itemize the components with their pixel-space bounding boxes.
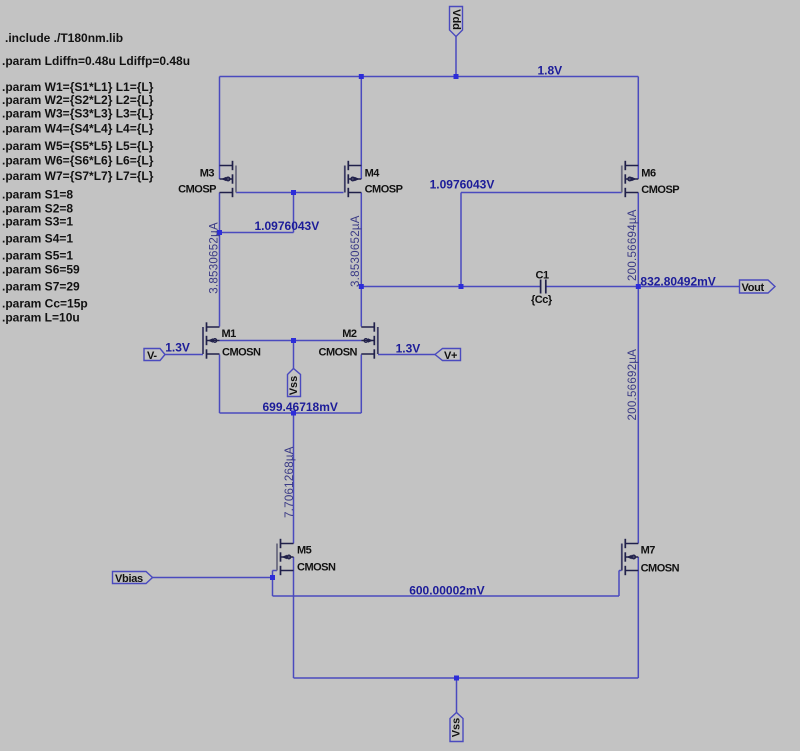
wire M7 bulk/source down bbox=[637, 557, 639, 678]
transistor M1 CMOSN bbox=[203, 322, 261, 358]
wire tail down to M5 bbox=[293, 413, 295, 544]
wire M3 drain to M1 drain bbox=[219, 193, 221, 327]
wire M6 drain to M7 drain bbox=[637, 193, 639, 544]
wire M7 gate jog bbox=[619, 570, 622, 572]
junction bottom rail/Vss bbox=[454, 676, 459, 681]
port V+ input bbox=[435, 349, 461, 363]
wire M6 source/bulk bbox=[637, 77, 639, 180]
junction M4 drain/output bbox=[359, 284, 364, 289]
svg-text:.param W2={S2*L2} L2={L}: .param W2={S2*L2} L2={L} bbox=[2, 93, 154, 107]
svg-text:.param W5={S5*L5} L5={L}: .param W5={S5*L5} L5={L} bbox=[2, 139, 154, 153]
svg-text:.param S3=1: .param S3=1 bbox=[2, 215, 73, 229]
svg-text:CMOSP: CMOSP bbox=[641, 184, 679, 196]
junction tail bbox=[291, 411, 296, 416]
svg-text:.param W6={S6*L6} L6={L}: .param W6={S6*L6} L6={L} bbox=[2, 154, 154, 168]
svg-text:V-: V- bbox=[147, 350, 157, 362]
wire M2 source down bbox=[360, 355, 362, 414]
svg-text:CMOSP: CMOSP bbox=[365, 184, 403, 196]
svg-text:600.00002mV: 600.00002mV bbox=[409, 584, 484, 598]
svg-text:200.56692µA: 200.56692µA bbox=[627, 349, 639, 421]
wire Vdd stem bbox=[455, 37, 457, 77]
wire M4 source/bulk bbox=[360, 77, 362, 180]
svg-text:C1: C1 bbox=[536, 270, 549, 282]
junction M3 diode bbox=[217, 230, 222, 235]
wire M5 gate jog horizontal bbox=[273, 570, 278, 572]
svg-text:1.0976043V: 1.0976043V bbox=[430, 177, 495, 191]
junction M6 gate/output bbox=[459, 284, 464, 289]
wire tail horizontal bbox=[220, 412, 362, 414]
wire C1 to Vout bbox=[546, 286, 740, 288]
wire Vss stem bottom bbox=[456, 678, 458, 713]
junction M4 source rail bbox=[359, 74, 364, 79]
transistor M3 CMOSP bbox=[178, 161, 236, 197]
svg-text:M1: M1 bbox=[222, 328, 237, 340]
transistor M4 CMOSP bbox=[345, 161, 403, 197]
svg-text:M3: M3 bbox=[200, 168, 215, 180]
svg-text:Vdd: Vdd bbox=[450, 9, 462, 30]
svg-text:200.56694µA: 200.56694µA bbox=[627, 209, 639, 281]
wire M3 source/bulk bbox=[219, 77, 221, 180]
wire M1-M2 bulk bus bbox=[220, 340, 362, 342]
wire V- to M1 gate bbox=[165, 354, 203, 356]
wire Vbias to M5 gate bbox=[153, 577, 273, 579]
junction gate bus bbox=[291, 190, 296, 195]
svg-text:.param W4={S4*L4} L4={L}: .param W4={S4*L4} L4={L} bbox=[2, 122, 154, 136]
transistor M2 CMOSN bbox=[319, 322, 378, 358]
svg-text:Vout: Vout bbox=[742, 282, 765, 294]
svg-text:M2: M2 bbox=[342, 328, 357, 340]
svg-text:CMOSN: CMOSN bbox=[319, 347, 358, 359]
port Vss middle flag bbox=[288, 369, 301, 397]
wire bottom Vss rail bbox=[294, 677, 639, 679]
junction Vbias/M5 gate bbox=[270, 575, 275, 580]
port Vout output bbox=[740, 280, 776, 294]
wire mirror bus horizontal bbox=[273, 595, 620, 597]
svg-text:.param S2=8: .param S2=8 bbox=[2, 202, 73, 216]
wire first-stage output to C1 bbox=[361, 286, 540, 288]
wire M5 gate jog vertical bbox=[272, 571, 274, 578]
svg-text:.param S5=1: .param S5=1 bbox=[2, 249, 73, 263]
spice directives text block bbox=[2, 31, 190, 325]
wire M6 gate horizontal bbox=[461, 192, 622, 194]
svg-text:CMOSN: CMOSN bbox=[641, 563, 680, 575]
transistor M6 CMOSP bbox=[622, 161, 680, 197]
svg-text:M5: M5 bbox=[297, 545, 312, 557]
svg-text:1.8V: 1.8V bbox=[538, 63, 563, 77]
svg-text:699.46718mV: 699.46718mV bbox=[263, 400, 338, 414]
svg-text:.param S6=59: .param S6=59 bbox=[2, 263, 80, 277]
svg-text:.param Cc=15p: .param Cc=15p bbox=[2, 297, 88, 311]
svg-text:.param S7=29: .param S7=29 bbox=[2, 280, 80, 294]
svg-text:Vss: Vss bbox=[288, 376, 300, 396]
svg-text:CMOSN: CMOSN bbox=[222, 347, 261, 359]
junction Vout node bbox=[636, 284, 641, 289]
svg-text:832.80492mV: 832.80492mV bbox=[640, 274, 715, 288]
svg-text:.param W7={S7*L7} L7={L}: .param W7={S7*L7} L7={L} bbox=[2, 169, 154, 183]
junction bulk/Vss bbox=[291, 338, 296, 343]
svg-text:.param W3={S3*L3} L3={L}: .param W3={S3*L3} L3={L} bbox=[2, 107, 154, 121]
junction Vdd/rail bbox=[454, 74, 459, 79]
svg-text:1.3V: 1.3V bbox=[396, 342, 421, 356]
svg-text:1.0976043V: 1.0976043V bbox=[255, 219, 320, 233]
wire M5 bulk/source down bbox=[293, 557, 295, 678]
capacitor C1 bbox=[531, 270, 553, 307]
svg-text:7.7061268µA: 7.7061268µA bbox=[284, 446, 296, 518]
svg-text:CMOSP: CMOSP bbox=[178, 184, 216, 196]
svg-text:{Cc}: {Cc} bbox=[531, 294, 553, 306]
wire top Vdd rail bbox=[220, 76, 639, 78]
svg-text:CMOSN: CMOSN bbox=[297, 562, 336, 574]
wire M3-M4 gate bus bbox=[236, 192, 344, 194]
svg-text:M7: M7 bbox=[641, 545, 656, 557]
port Vss bottom flag bbox=[450, 713, 463, 742]
svg-text:.param W1={S1*L1} L1={L}: .param W1={S1*L1} L1={L} bbox=[2, 80, 154, 94]
svg-text:M4: M4 bbox=[365, 168, 381, 180]
wire bulk to Vss flag bbox=[293, 341, 295, 369]
svg-text:V+: V+ bbox=[444, 350, 457, 362]
port V- input bbox=[144, 349, 165, 363]
wire M6 gate vertical bbox=[460, 193, 462, 287]
svg-text:.include ./T180nm.lib: .include ./T180nm.lib bbox=[5, 31, 123, 45]
wire M3 diode connection vertical bbox=[293, 193, 295, 233]
svg-text:3.8530652µA: 3.8530652µA bbox=[350, 215, 362, 287]
wire M4 drain to M2 drain bbox=[360, 193, 362, 327]
svg-text:Vss: Vss bbox=[451, 718, 463, 738]
port Vdd top flag bbox=[450, 7, 463, 37]
wire M3 diode connection horizontal bbox=[220, 232, 294, 234]
transistor M5 CMOSN bbox=[277, 539, 336, 575]
wire M1 source down bbox=[219, 355, 221, 414]
svg-text:M6: M6 bbox=[641, 167, 656, 179]
wire mirror bus down bbox=[272, 578, 274, 597]
transistor M7 CMOSN bbox=[622, 539, 680, 575]
port Vbias input bbox=[113, 572, 153, 586]
svg-text:.param Ldiffn=0.48u Ldiffp=0.4: .param Ldiffn=0.48u Ldiffp=0.48u bbox=[2, 54, 190, 68]
svg-text:3.8530652µA: 3.8530652µA bbox=[208, 222, 220, 294]
svg-text:.param L=10u: .param L=10u bbox=[2, 311, 80, 325]
wire mirror bus up to M7 gate bbox=[618, 571, 620, 597]
svg-text:Vbias: Vbias bbox=[115, 573, 143, 585]
svg-text:1.3V: 1.3V bbox=[165, 341, 190, 355]
wire M2 gate to V+ bbox=[378, 354, 435, 356]
svg-text:.param S1=8: .param S1=8 bbox=[2, 188, 73, 202]
svg-text:.param S4=1: .param S4=1 bbox=[2, 232, 73, 246]
